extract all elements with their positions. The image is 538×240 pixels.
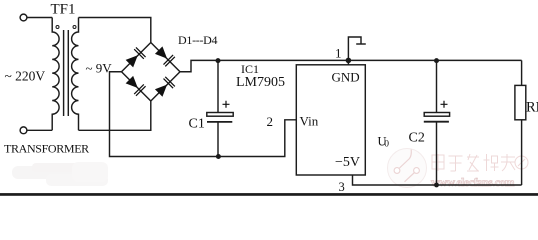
svg-text:2: 2 <box>267 114 274 129</box>
svg-text:1: 1 <box>335 46 342 61</box>
svg-text:3: 3 <box>339 180 345 194</box>
svg-text:~ 220V: ~ 220V <box>5 69 46 84</box>
svg-text:~ 9V: ~ 9V <box>86 61 113 76</box>
svg-text:C2: C2 <box>409 131 425 146</box>
svg-text:D1---D4: D1---D4 <box>178 33 218 47</box>
svg-text:Vin: Vin <box>300 114 319 129</box>
svg-text:www.elecfans.com: www.elecfans.com <box>431 177 515 189</box>
svg-text:−5V: −5V <box>335 155 360 170</box>
svg-text:GND: GND <box>332 70 360 85</box>
svg-text:TF1: TF1 <box>51 2 76 18</box>
svg-text:C1: C1 <box>189 117 205 132</box>
svg-text:IC1: IC1 <box>241 62 259 76</box>
svg-text:0: 0 <box>384 140 389 150</box>
svg-text:TRANSFORMER: TRANSFORMER <box>4 142 89 156</box>
svg-text:RL: RL <box>526 100 538 116</box>
svg-text:LM7905: LM7905 <box>236 75 285 90</box>
